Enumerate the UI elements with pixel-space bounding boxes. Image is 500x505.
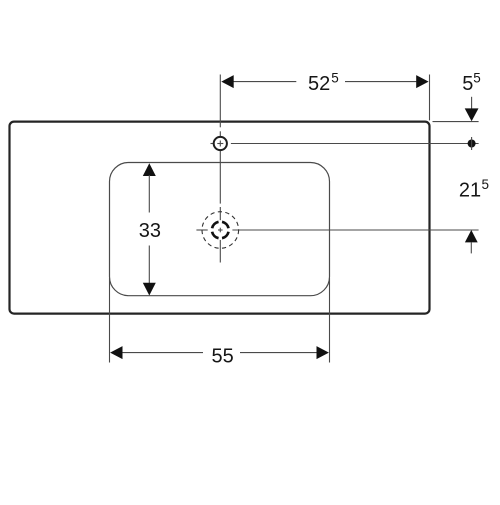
drain center cross <box>218 228 223 233</box>
dimension 55: dimension line <box>122 352 316 354</box>
svg-text:33: 33 <box>139 220 161 242</box>
svg-text:5: 5 <box>482 177 490 192</box>
dimension 55: right extension line <box>329 278 331 363</box>
dimension 33: lower shaft <box>148 246 150 284</box>
dimension 21.5: tick through dot <box>471 137 473 150</box>
svg-text:21: 21 <box>459 180 481 202</box>
faucet hole center cross <box>217 141 223 147</box>
horizontal center line through faucet hole <box>211 143 479 145</box>
basin bowl outline <box>110 163 330 296</box>
dimension 55: left arrowhead <box>110 346 122 359</box>
dimension 55: right arrowhead <box>317 346 329 359</box>
svg-text:5: 5 <box>331 71 339 86</box>
dimension 52.5: extension line right <box>429 75 431 121</box>
dimension 52.5: left arrowhead <box>221 75 233 88</box>
dimension 21.5: reference dot on faucet line <box>468 140 476 148</box>
dimension 5.5: down arrowhead <box>465 108 479 121</box>
svg-text:55: 55 <box>212 346 234 368</box>
vertical center line through faucet and drain <box>219 75 221 263</box>
dimension 55: left extension line <box>109 278 111 363</box>
dimension 21.5: arrow stub <box>470 242 472 253</box>
drain inner ring arcs <box>212 222 228 238</box>
svg-text:5: 5 <box>462 73 473 95</box>
svg-text:5: 5 <box>473 71 481 86</box>
dimension 33: down arrowhead at bowl bottom <box>143 283 156 296</box>
dimension 21.5: up arrowhead <box>465 230 478 242</box>
dimension 33: upper shaft <box>148 175 150 213</box>
dimension 33: up arrowhead at bowl top <box>143 163 156 176</box>
drain dashed circle <box>202 212 239 249</box>
faucet hole circle <box>214 137 227 150</box>
dimension 5.5: arrow stub <box>471 97 473 110</box>
horizontal center line through drain <box>196 229 478 231</box>
washbasin countertop outline <box>10 122 430 314</box>
dimension 52.5: dimension line <box>234 81 417 83</box>
dimension 5.5: extension line from top edge <box>433 121 479 123</box>
dimension 52.5: right arrowhead <box>416 75 428 88</box>
svg-text:52: 52 <box>308 73 330 95</box>
